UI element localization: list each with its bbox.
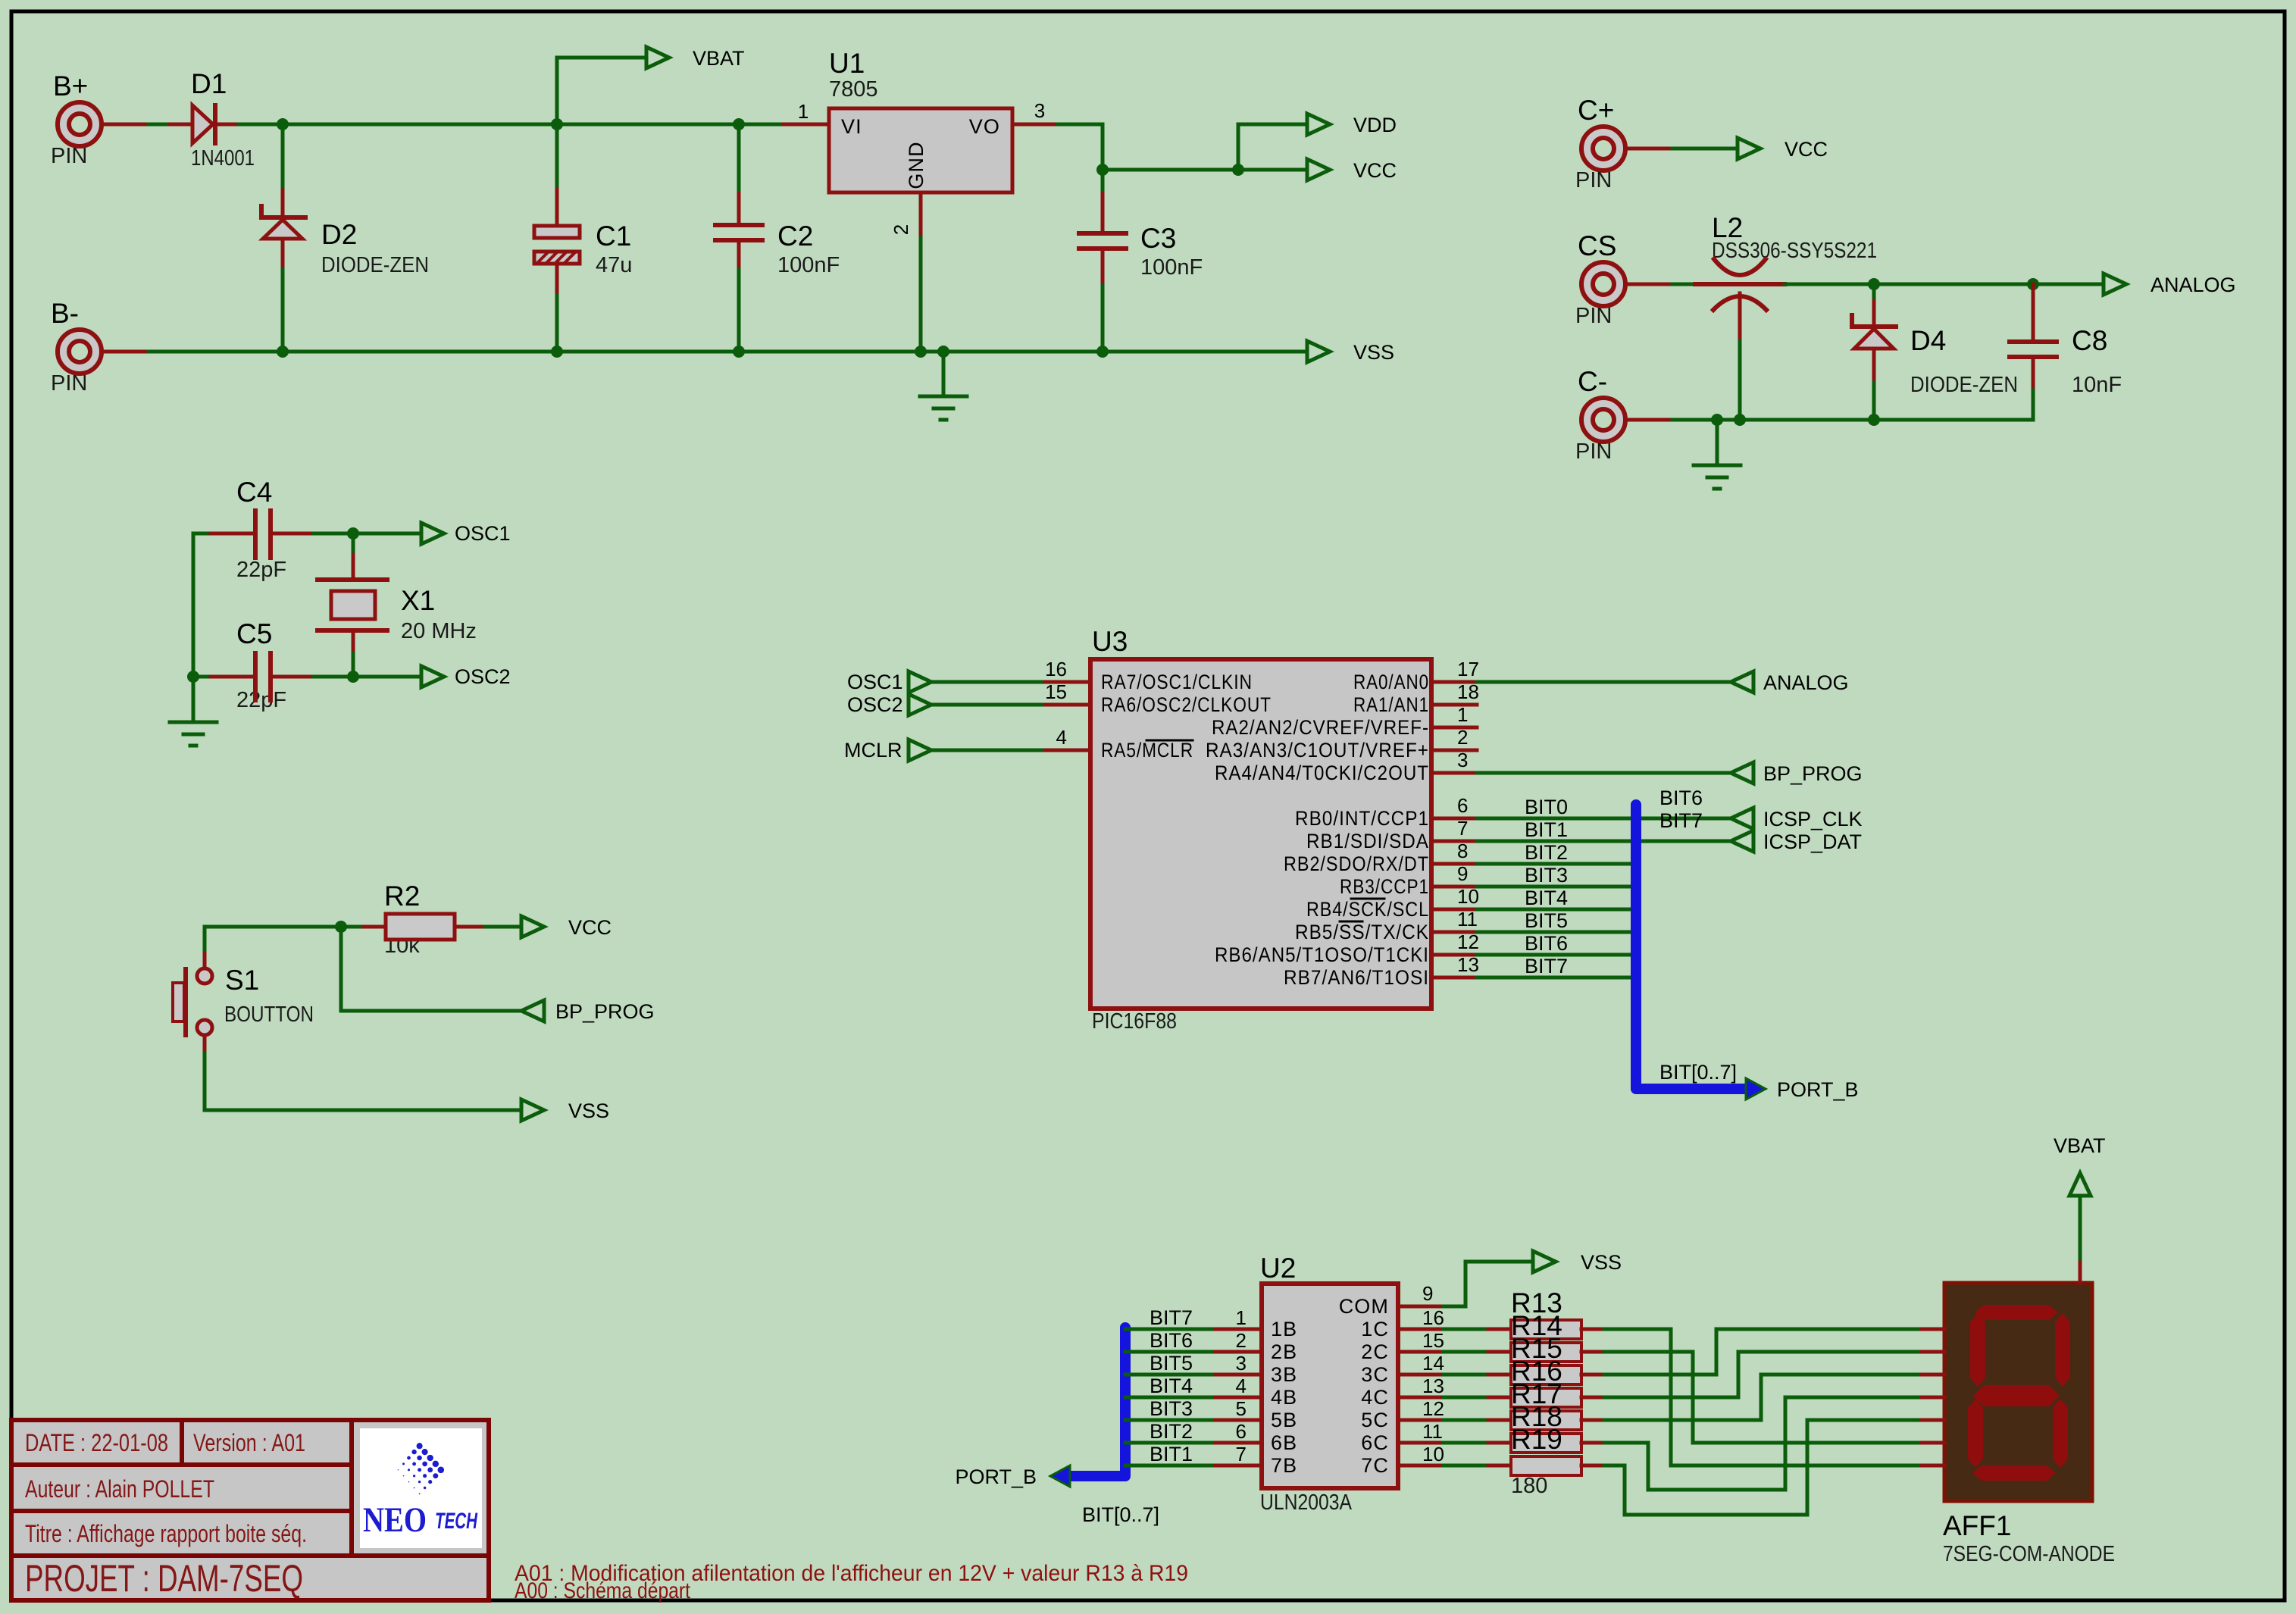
svg-text:C5: C5 [236,618,272,649]
node D4 bottom [1868,414,1880,426]
wire D1 to U1 pin1 (top rail) [239,123,784,127]
svg-text:RA7/OSC1/CLKIN: RA7/OSC1/CLKIN [1101,671,1253,693]
svg-text:RB3/CCP1: RB3/CCP1 [1340,875,1429,898]
wire RA0 to ANALOG [1477,680,1731,684]
svg-text:Auteur : Alain POLLET: Auteur : Alain POLLET [25,1475,214,1503]
svg-text:ANALOG: ANALOG [1763,671,1849,694]
svg-text:1: 1 [798,100,809,123]
svg-text:10: 10 [1422,1443,1444,1465]
svg-text:VDD: VDD [1353,114,1397,136]
power arrow VBAT up [2069,1173,2091,1196]
svg-text:180: 180 [1511,1474,1547,1498]
pin 7B wire BIT1 [1125,1464,1215,1468]
resistor R17 [1488,1378,1604,1430]
wire VBAT branch [557,58,646,124]
svg-text:RB7/AN6/T1OSI: RB7/AN6/T1OSI [1284,966,1429,989]
svg-text:BIT7: BIT7 [1659,809,1703,832]
svg-text:VSS: VSS [1581,1251,1622,1274]
pin 7C out [1398,1464,1444,1468]
logo NEO TECH [360,1428,482,1548]
node C8 top [2027,278,2039,290]
svg-text:13: 13 [1457,953,1479,976]
svg-text:5: 5 [1236,1397,1247,1420]
pin 2 RA3 [1431,749,1477,752]
svg-text:22pF: 22pF [236,688,286,712]
svg-text:OSC2: OSC2 [847,693,903,716]
resistor R13 [1488,1287,1604,1339]
pin 18 RA1/AN1 [1431,703,1477,707]
wire BIT7 to bus [1477,976,1636,980]
wire BIT4 to bus [1477,908,1636,912]
svg-text:BIT7: BIT7 [1525,955,1568,977]
pin 4B wire BIT4 [1125,1396,1215,1400]
svg-text:Version : A01: Version : A01 [193,1429,305,1456]
svg-text:BIT1: BIT1 [1150,1443,1193,1465]
op U2 body [1260,1253,1398,1515]
segment g [1973,1385,2060,1406]
power arrow VSS [1307,341,1330,362]
capacitor C4 22pF [193,477,353,582]
svg-text:ANALOG: ANALOG [2151,274,2236,296]
input arrow ANALOG right [1731,671,1753,693]
svg-text:PIN: PIN [1575,439,1612,464]
svg-text:ICSP_CLK: ICSP_CLK [1763,808,1863,830]
svg-text:VCC: VCC [1785,138,1828,161]
svg-text:RB5/SS/TX/CK: RB5/SS/TX/CK [1295,921,1429,943]
resistor R16 [1488,1356,1604,1407]
svg-text:PIN: PIN [1575,304,1612,328]
wire C- bottom rail [1672,418,2033,422]
power arrow VCC right [1738,138,1760,159]
svg-text:BIT[0..7]: BIT[0..7] [1659,1061,1737,1084]
pin 1C out [1398,1328,1444,1331]
pin CS [1575,230,1672,328]
wire OSC2 to pin15 [931,703,1045,707]
svg-text:VBAT: VBAT [693,47,745,70]
bus PORT_B left [1070,1328,1125,1476]
svg-text:BIT2: BIT2 [1525,841,1568,864]
svg-text:PROJET : DAM-7SEQ: PROJET : DAM-7SEQ [25,1557,303,1600]
node ground branch right [1711,414,1723,426]
svg-text:PORT_B: PORT_B [955,1465,1037,1488]
wire BIT1 to bus and ICSP_DAT [1477,840,1731,843]
pin 3B wire BIT5 [1125,1373,1215,1377]
svg-text:ULN2003A: ULN2003A [1260,1490,1353,1515]
svg-text:16: 16 [1422,1306,1444,1329]
segment c [2053,1399,2068,1468]
svg-text:3: 3 [1236,1352,1247,1375]
svg-text:C4: C4 [236,477,272,508]
pin 11 RB5 [1431,931,1477,934]
svg-text:VI: VI [841,115,862,138]
svg-text:6: 6 [1236,1420,1247,1443]
node D4 top [1868,278,1880,290]
node D2 bottom [277,346,289,358]
wire U1 pin2 down [919,238,923,352]
svg-text:10: 10 [1457,885,1479,908]
svg-text:9: 9 [1422,1282,1433,1305]
bus PORT_B [1636,805,1746,1089]
svg-text:7805: 7805 [829,77,878,102]
segment d [1972,1465,2056,1481]
svg-text:U1: U1 [829,48,865,79]
power arrow VCC [1307,159,1330,180]
svg-text:3: 3 [1457,749,1468,771]
pin 2B wire BIT6 [1125,1350,1215,1354]
svg-text:BOUTTON: BOUTTON [224,1002,314,1027]
node ground branch [937,346,949,358]
svg-text:12: 12 [1422,1397,1444,1420]
node C3 bottom [1096,346,1109,358]
wire S1 to VSS [205,1109,521,1112]
diode D1 1N4001 [170,68,255,170]
pin 6 RB0 [1431,817,1477,821]
svg-text:PORT_B: PORT_B [1777,1078,1859,1101]
pin B- [51,298,149,396]
display pins [1922,1328,1944,1331]
pin 1 RA2 [1431,726,1477,730]
svg-text:BIT7: BIT7 [1150,1306,1193,1329]
pin 4C out [1398,1396,1444,1400]
svg-text:OSC1: OSC1 [455,522,511,545]
svg-text:8: 8 [1457,840,1468,862]
pin C+ [1575,95,1672,192]
svg-text:D2: D2 [321,219,357,250]
display common pin to VBAT [2079,1259,2082,1283]
node junction at C2 [733,118,745,130]
svg-text:3C: 3C [1361,1363,1389,1386]
svg-text:10nF: 10nF [2072,373,2122,397]
svg-text:BIT6: BIT6 [1525,932,1568,955]
capacitor C8 10nF [2010,284,2122,420]
zener D2 DIODE-ZEN [261,124,429,352]
svg-text:A00 : Schéma départ: A00 : Schéma départ [515,1578,691,1603]
svg-text:RB6/AN5/T1OSO/T1CKI: RB6/AN5/T1OSO/T1CKI [1215,943,1429,966]
svg-text:16: 16 [1045,658,1067,680]
svg-text:7: 7 [1236,1443,1247,1465]
svg-text:5B: 5B [1271,1409,1297,1431]
svg-text:1B: 1B [1271,1318,1297,1340]
button S1 BOUTTON [173,927,314,1110]
pin 9 RB3 [1431,885,1477,889]
svg-text:2B: 2B [1271,1340,1297,1363]
wire VDD branch [1238,124,1307,170]
power arrow VSS mid [521,1099,544,1121]
svg-text:R2: R2 [384,881,420,912]
wire VSS bottom rail [149,350,1307,354]
pin 1B wire BIT7 [1125,1328,1215,1331]
wire B+ to D1 [149,123,170,127]
wire R16 to display b [1604,1352,1922,1397]
wire BIT3 to bus [1477,885,1636,889]
resistor R14 [1488,1310,1604,1362]
svg-text:2: 2 [1236,1329,1247,1352]
svg-text:PIN: PIN [1575,168,1612,192]
wire BIT6 to bus [1477,953,1636,957]
pin 12 RB6 [1431,953,1477,957]
crystal X1 20 MHz [317,533,477,677]
svg-text:BIT3: BIT3 [1150,1397,1193,1420]
node junction at C3 [1096,164,1109,176]
power arrow VCC mid [521,916,544,937]
wire R19 to display e [1604,1420,1922,1515]
svg-text:BIT1: BIT1 [1525,818,1568,841]
segment b [2055,1313,2070,1387]
svg-text:RA5/MCLR: RA5/MCLR [1101,739,1193,762]
node C2 bottom [733,346,745,358]
svg-text:C2: C2 [777,221,813,252]
svg-text:BIT4: BIT4 [1150,1375,1193,1397]
svg-text:DIODE-ZEN: DIODE-ZEN [321,253,429,277]
svg-text:C8: C8 [2072,325,2107,356]
svg-text:100nF: 100nF [1140,255,1203,280]
wire BIT5 to bus [1477,931,1636,934]
node junction VDD branch [1232,164,1244,176]
wire L2 to ANALOG [1785,283,2104,286]
svg-text:MCLR: MCLR [844,739,902,762]
wire R14 to display f [1604,1352,1922,1443]
svg-text:CS: CS [1578,230,1616,261]
svg-text:OSC2: OSC2 [455,665,511,688]
svg-text:Titre : Affichage rapport boit: Titre : Affichage rapport boite séq. [25,1520,307,1547]
pin 8 RB2 [1431,862,1477,866]
capacitor C1 47u polarized [534,124,632,352]
svg-text:4C: 4C [1361,1386,1389,1409]
svg-text:DIODE-ZEN: DIODE-ZEN [1910,373,2018,397]
svg-text:7: 7 [1457,817,1468,840]
svg-text:RA6/OSC2/CLKOUT: RA6/OSC2/CLKOUT [1101,693,1272,716]
svg-text:PIN: PIN [51,144,87,168]
svg-text:3B: 3B [1271,1363,1297,1386]
svg-text:B-: B- [51,298,79,329]
pin 6C out [1398,1441,1444,1445]
node X1 bottom [347,671,359,683]
display body [1943,1283,2115,1566]
resistor R19 [1488,1424,1604,1498]
svg-text:BIT2: BIT2 [1150,1420,1193,1443]
wire R13 to display g [1604,1329,1922,1465]
svg-text:6B: 6B [1271,1431,1297,1454]
wire MCLR to pin4 [931,749,1045,752]
segment f [1970,1313,1985,1387]
svg-text:BP_PROG: BP_PROG [1763,762,1863,785]
op U3 body [1090,626,1431,1034]
svg-text:ICSP_DAT: ICSP_DAT [1763,830,1862,853]
svg-text:DSS306-SSY5S221: DSS306-SSY5S221 [1712,239,1877,263]
svg-text:VO: VO [969,115,1000,138]
svg-text:BIT[0..7]: BIT[0..7] [1082,1503,1159,1526]
wire RA4 to BP_PROG [1477,771,1731,775]
svg-text:U3: U3 [1092,626,1128,657]
svg-text:1: 1 [1457,703,1468,726]
node junction at C1 [551,118,563,130]
power arrow ANALOG [2104,274,2126,295]
wire osc left rail [192,533,196,722]
wire pin3 to VDD/VCC [1058,124,1307,170]
pin 10 RB4 [1431,908,1477,912]
wire BIT0 to bus and ICSP_CLK [1477,817,1731,821]
svg-text:C1: C1 [596,221,631,252]
svg-text:BIT5: BIT5 [1525,909,1568,932]
svg-text:12: 12 [1457,931,1479,953]
svg-text:VSS: VSS [568,1099,609,1122]
svg-text:BIT3: BIT3 [1525,864,1568,887]
svg-text:18: 18 [1457,680,1479,703]
pin 15 RA6 [1045,703,1090,707]
svg-text:U2: U2 [1260,1253,1296,1284]
svg-text:D4: D4 [1910,325,1946,356]
svg-text:BIT5: BIT5 [1150,1352,1193,1375]
pin 7 RB1 [1431,840,1477,843]
ground symbol right [1716,420,1719,465]
pin 4 RA5 [1045,749,1090,752]
svg-text:1N4001: 1N4001 [191,146,255,170]
capacitor C5 22pF [193,618,353,712]
input arrow OSC1 [909,671,931,693]
svg-text:RB0/INT/CCP1: RB0/INT/CCP1 [1295,807,1429,830]
svg-text:VCC: VCC [568,916,612,939]
svg-text:17: 17 [1457,658,1479,680]
svg-text:PIN: PIN [51,371,87,396]
svg-text:C-: C- [1578,366,1607,397]
svg-text:4: 4 [1056,726,1067,749]
pin 2C out [1398,1350,1444,1354]
node junction at D2 [277,118,289,130]
svg-text:RB1/SDI/SDA: RB1/SDI/SDA [1306,830,1429,852]
svg-text:RA4/AN4/T0CKI/C2OUT: RA4/AN4/T0CKI/C2OUT [1215,762,1429,784]
svg-text:RA0/AN0: RA0/AN0 [1353,671,1429,693]
ground symbol crystal [170,722,217,746]
input arrow BP_PROG right [1731,762,1753,784]
svg-text:1C: 1C [1361,1318,1389,1340]
svg-text:9: 9 [1457,862,1468,885]
svg-text:VBAT: VBAT [2054,1134,2106,1157]
svg-text:S1: S1 [225,965,259,996]
capacitor C3 100nF [1079,170,1203,352]
svg-text:RA2/AN2/CVREF/VREF-: RA2/AN2/CVREF/VREF- [1212,716,1429,739]
node X1 top [347,527,359,540]
svg-text:11: 11 [1457,908,1478,931]
svg-text:RB2/SDO/RX/DT: RB2/SDO/RX/DT [1284,852,1429,875]
wire OSC1 to pin16 [931,680,1045,684]
svg-text:15: 15 [1422,1329,1444,1352]
wire BP_PROG branch [341,927,521,1011]
svg-text:7C: 7C [1361,1454,1389,1477]
svg-text:3: 3 [1034,99,1045,122]
input arrow MCLR [909,740,931,761]
svg-text:2: 2 [1457,726,1468,749]
svg-text:14: 14 [1422,1352,1444,1375]
segment e [1968,1399,1983,1468]
svg-text:BIT6: BIT6 [1659,787,1703,809]
svg-text:100nF: 100nF [777,253,840,277]
svg-text:6: 6 [1457,794,1468,817]
svg-text:NEO: NEO [363,1500,427,1540]
zener D4 DIODE-ZEN [1852,284,2018,420]
wire R15 to display a [1604,1329,1922,1375]
capacitor C2 100nF [715,124,840,352]
input arrow BP_PROG [521,1000,544,1021]
wire OSC1 [353,532,421,536]
ground symbol [942,352,946,396]
svg-text:RA1/AN1: RA1/AN1 [1353,693,1429,716]
svg-text:VCC: VCC [1353,159,1397,182]
node C1 bottom [551,346,563,358]
svg-text:R19: R19 [1511,1424,1562,1455]
wire S1 top to R2 [205,925,364,929]
svg-text:22pF: 22pF [236,558,286,582]
svg-text:BIT6: BIT6 [1150,1329,1193,1352]
resistor R2 10k [364,881,521,958]
pin 5B wire BIT3 [1125,1419,1215,1422]
wire R17 to display c [1604,1375,1922,1420]
power arrow VBAT [646,47,669,68]
svg-text:BIT0: BIT0 [1525,796,1568,818]
wire R18 to display d [1604,1397,1922,1490]
node C5 left [187,671,199,683]
pin 3 RA4 [1431,771,1477,775]
svg-text:20 MHz: 20 MHz [401,619,477,643]
node L2 stem [1734,414,1746,426]
svg-text:11: 11 [1422,1420,1443,1443]
wire COM to VSS [1444,1262,1533,1306]
pin 17 RA0/AN0 [1431,680,1477,684]
svg-text:7SEG-COM-ANODE: 7SEG-COM-ANODE [1943,1542,2115,1566]
svg-text:4B: 4B [1271,1386,1297,1409]
svg-text:RB4/SCK/SCL: RB4/SCK/SCL [1306,898,1429,921]
resistor R15 [1488,1333,1604,1384]
svg-text:DATE : 22-01-08: DATE : 22-01-08 [25,1429,168,1456]
svg-text:GND: GND [905,141,927,189]
pin 5C out [1398,1419,1444,1422]
svg-text:PIC16F88: PIC16F88 [1092,1009,1177,1034]
power arrow VDD [1307,114,1330,135]
wire C+ to VCC [1672,147,1738,151]
svg-text:6C: 6C [1361,1431,1389,1454]
node R2 junction [335,921,347,933]
svg-text:BIT4: BIT4 [1525,887,1568,909]
wire OSC2 [353,675,421,679]
input arrow OSC2 [909,694,931,715]
pin 13 RB7 [1431,976,1477,980]
svg-text:15: 15 [1045,680,1067,703]
svg-text:2: 2 [890,224,912,235]
sensor L2 DSS306-SSY5S221 [1695,212,1877,420]
pin 6B wire BIT2 [1125,1441,1215,1445]
pin 16 RA7 [1045,680,1090,684]
segment a [1975,1305,2058,1320]
svg-text:C3: C3 [1140,223,1176,254]
svg-text:AFF1: AFF1 [1943,1510,2011,1541]
pin C- [1575,366,1672,464]
pin B+ [51,70,149,168]
svg-text:RA3/AN3/C1OUT/VREF+: RA3/AN3/C1OUT/VREF+ [1206,739,1429,762]
svg-text:OSC1: OSC1 [847,671,903,693]
svg-text:TECH: TECH [435,1509,478,1534]
svg-text:13: 13 [1422,1375,1444,1397]
svg-text:2C: 2C [1361,1340,1389,1363]
node U1 pin2 bottom [915,346,927,358]
svg-text:1: 1 [1236,1306,1247,1329]
svg-text:4: 4 [1236,1375,1247,1397]
svg-text:VSS: VSS [1353,341,1394,364]
svg-text:X1: X1 [401,585,435,616]
svg-text:5C: 5C [1361,1409,1389,1431]
svg-text:D1: D1 [191,68,227,99]
wire CS to L2 [1672,283,1695,286]
svg-text:C+: C+ [1578,95,1614,126]
pin COM [1398,1305,1444,1309]
